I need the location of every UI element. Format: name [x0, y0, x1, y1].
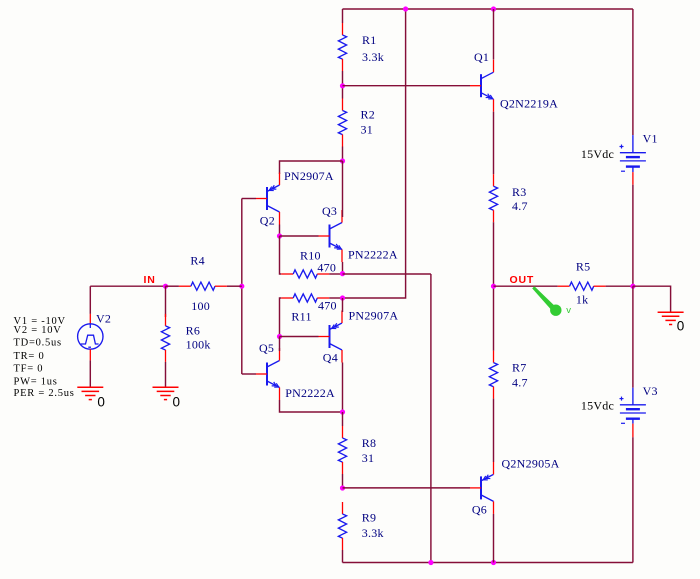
wire V2 to ground — [89, 360, 91, 387]
svg-text:Q4: Q4 — [323, 350, 338, 364]
node R10/Q3 emitter — [340, 271, 345, 276]
wire Q4 emitter — [342, 298, 344, 312]
svg-text:Q5: Q5 — [259, 341, 274, 355]
wire R6 to ground — [165, 362, 167, 387]
wire input base column — [241, 199, 243, 375]
transistor Q2 — [256, 169, 334, 228]
wire R8 top — [342, 412, 344, 426]
svg-text:3.3k: 3.3k — [362, 50, 384, 64]
svg-text:R5: R5 — [576, 260, 591, 274]
wire R7 to Q6 — [493, 399, 495, 462]
wire Q1 base — [343, 85, 471, 87]
node top rail x405 — [403, 6, 408, 11]
node right rail OUT row — [630, 284, 635, 289]
node R8/R9 junction — [340, 485, 345, 490]
wire Q3 collector — [342, 161, 344, 217]
resistor R7 — [489, 351, 527, 399]
resistor R11 — [281, 294, 337, 324]
wire R10 node to x430 — [343, 273, 431, 275]
node top rail x493 — [491, 6, 496, 11]
node Q4 base / Q5 collector — [277, 334, 282, 339]
svg-text:R6: R6 — [186, 323, 201, 337]
resistor R5 — [558, 260, 606, 307]
svg-text:v: v — [566, 305, 571, 316]
node R2/Q2 emitter junction — [340, 158, 345, 163]
node bottom rail x430 — [428, 560, 433, 565]
svg-text:V1: V1 — [643, 132, 658, 146]
wire R9 bottom — [342, 550, 344, 563]
wire R6 top — [165, 286, 167, 317]
svg-text:TF= 0: TF= 0 — [14, 363, 44, 374]
node IN junction — [163, 284, 168, 289]
resistor R3 — [489, 174, 527, 222]
wire V1 to OUT row — [632, 185, 634, 287]
wire to right ground — [633, 286, 671, 312]
wire IN to R4 — [166, 285, 179, 287]
wire R2 bottom — [342, 147, 344, 162]
wire OUT to R7 — [493, 286, 495, 350]
wire Q1 emitter to R3 — [493, 112, 495, 175]
wire top rail — [343, 8, 633, 10]
svg-text:3.3k: 3.3k — [362, 526, 384, 540]
wire IN row — [90, 285, 165, 287]
node bottom rail x493 — [491, 560, 496, 565]
svg-text:TR= 0: TR= 0 — [14, 351, 45, 362]
ground V2 0 — [77, 387, 105, 409]
resistor R1 — [338, 23, 384, 71]
transistor Q3 — [319, 204, 398, 262]
wire V3 to bottom rail — [632, 437, 634, 562]
svg-text:31: 31 — [362, 451, 375, 465]
node Q5 emitter / R8 — [340, 409, 345, 414]
probe marker V — [532, 286, 571, 316]
wire left branch top — [342, 9, 344, 23]
wire Q6 base — [343, 487, 471, 489]
svg-text:100: 100 — [191, 299, 210, 313]
wire Q5 base — [242, 373, 256, 375]
label V2 pulse parameters — [14, 316, 75, 399]
wire x430 branch — [430, 274, 432, 563]
svg-text:V2: V2 — [96, 312, 111, 326]
svg-text:Q1: Q1 — [474, 50, 489, 64]
wire Q2 emitter rail — [280, 161, 343, 174]
svg-text:31: 31 — [361, 123, 374, 137]
wire V3 top — [632, 286, 634, 388]
wire Q3 base — [280, 235, 319, 237]
svg-text:Q2N2219A: Q2N2219A — [500, 96, 558, 110]
node R1/R2 junction — [340, 83, 345, 88]
resistor R4 — [179, 254, 227, 314]
node OUT junction — [491, 284, 496, 289]
wire R4 right — [227, 285, 242, 287]
resistor R10 — [281, 249, 336, 279]
svg-text:R7: R7 — [512, 361, 527, 375]
wire Q5 emitter rail — [280, 400, 343, 412]
svg-text:4.7: 4.7 — [512, 199, 528, 213]
resistor R9 — [338, 502, 383, 550]
svg-text:R2: R2 — [361, 108, 376, 122]
wire bottom rail — [343, 562, 633, 564]
transistor Q1 — [470, 50, 558, 112]
svg-text:R3: R3 — [512, 185, 527, 199]
svg-text:R1: R1 — [362, 33, 377, 47]
svg-text:Q2N2905A: Q2N2905A — [502, 457, 560, 471]
svg-text:R11: R11 — [291, 310, 311, 324]
svg-text:15Vdc: 15Vdc — [581, 147, 614, 161]
wire Q3 emitter — [342, 262, 344, 274]
svg-text:TD=0.5us: TD=0.5us — [14, 338, 62, 349]
svg-text:V2 = 10V: V2 = 10V — [14, 325, 62, 336]
svg-text:1k: 1k — [576, 293, 589, 307]
svg-text:0: 0 — [97, 394, 105, 409]
source V1 15Vdc battery — [581, 132, 658, 185]
svg-text:Q3: Q3 — [322, 204, 337, 218]
ground right 0 — [658, 312, 685, 333]
wire R3 to OUT — [493, 222, 495, 286]
resistor R8 — [338, 426, 376, 474]
wire R8 bottom — [342, 474, 344, 488]
svg-text:PW= 1us: PW= 1us — [14, 377, 58, 388]
source V2 pulse — [78, 312, 112, 361]
wire node to R10 — [280, 236, 282, 274]
svg-text:0: 0 — [173, 395, 181, 410]
svg-text:100k: 100k — [186, 338, 211, 352]
svg-text:PN2222A: PN2222A — [348, 248, 398, 262]
svg-text:PN2222A: PN2222A — [285, 386, 335, 400]
wire R10 right — [329, 273, 342, 275]
node R11/Q4 emitter — [340, 295, 345, 300]
transistor Q6 — [470, 457, 560, 517]
svg-text:Q6: Q6 — [472, 503, 487, 517]
wire R5 row — [494, 285, 558, 287]
wire Q2 base — [242, 198, 256, 200]
svg-text:PN2907A: PN2907A — [349, 308, 399, 322]
wire V2 top — [89, 286, 91, 314]
wire right rail top — [632, 9, 634, 135]
wire Q5 collector — [279, 337, 281, 352]
svg-text:470: 470 — [318, 299, 337, 313]
transistor Q5 — [256, 341, 335, 400]
svg-text:V3: V3 — [643, 384, 658, 398]
wire x405 branch — [343, 9, 406, 298]
resistor R6 — [161, 314, 210, 362]
svg-text:R9: R9 — [362, 511, 377, 525]
svg-text:OUT: OUT — [510, 274, 535, 286]
wire Q4 base — [280, 336, 319, 338]
wire Q2 collector — [279, 225, 281, 237]
wire R11 right — [329, 297, 342, 299]
svg-text:4.7: 4.7 — [512, 376, 528, 390]
resistor R2 — [338, 99, 375, 147]
node input column — [239, 284, 244, 289]
svg-text:PER = 2.5us: PER = 2.5us — [14, 388, 75, 399]
wire R1-R2 — [342, 71, 344, 99]
svg-text:R8: R8 — [362, 436, 377, 450]
node Q2 collector / Q3 base — [277, 233, 282, 238]
ground R6 0 — [153, 387, 181, 409]
source V3 15Vdc battery — [581, 384, 658, 437]
svg-text:15Vdc: 15Vdc — [581, 399, 614, 413]
wire Q4 collector — [342, 363, 344, 413]
svg-text:R4: R4 — [190, 254, 205, 268]
svg-text:Q2: Q2 — [260, 214, 275, 228]
svg-text:0: 0 — [677, 319, 685, 334]
wire Q1 collector — [493, 9, 495, 60]
wire Q6 collector to rail — [493, 514, 495, 563]
transistor Q4 — [319, 308, 399, 364]
svg-text:PN2907A: PN2907A — [284, 169, 334, 183]
wire R5 right — [606, 285, 633, 287]
svg-text:IN: IN — [144, 274, 156, 286]
svg-text:470: 470 — [317, 260, 336, 274]
wire R11 corner to Q4 base node — [280, 298, 282, 337]
